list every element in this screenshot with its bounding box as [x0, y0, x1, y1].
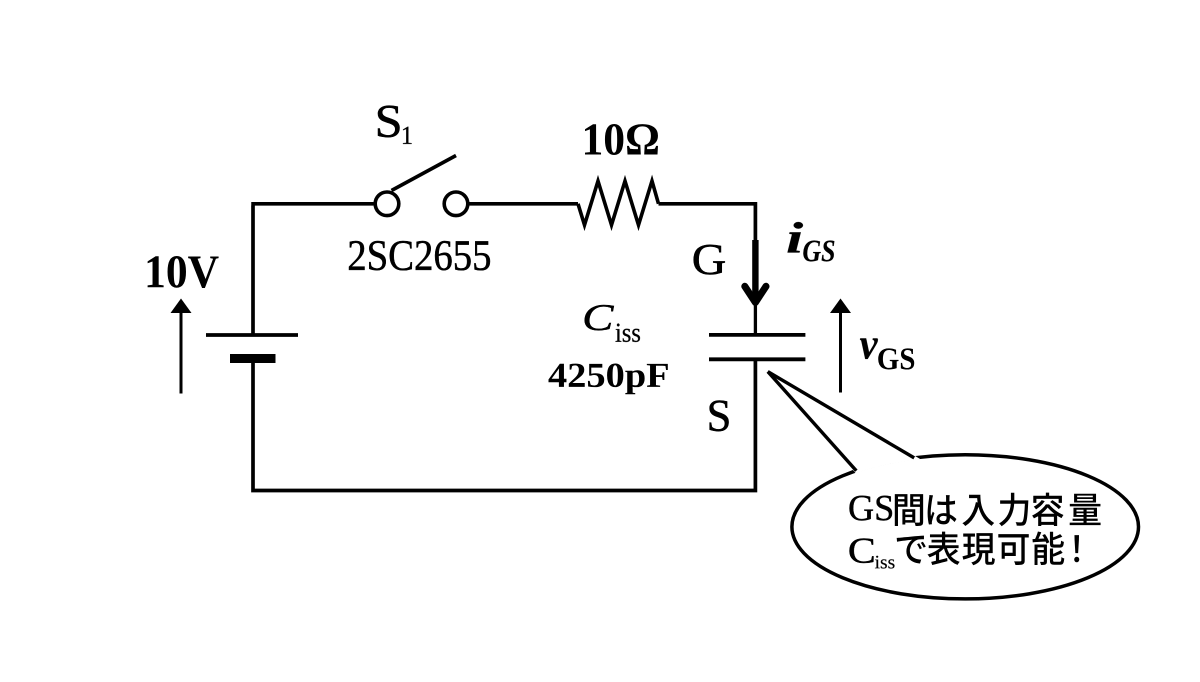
label C_iss: italic C: [585, 305, 614, 330]
battery B1 positive (long) plate: [206, 333, 298, 337]
switch S1 left contact circle: [375, 192, 399, 216]
wire: battery bottom down, bottom rail, up to capacitor bottom plate: [253, 357, 755, 491]
capacitor C_iss bottom plate (S side): [709, 357, 805, 361]
wire: left branch, battery top plate up and across to switch left contact: [251, 204, 373, 335]
label C_iss: subscript iss: [616, 324, 640, 342]
bubble text glyph 量 (line 1): [1070, 494, 1101, 525]
bubble text glyph 能 (line 2): [1033, 532, 1065, 565]
i_GS current arrow shaft (thick): [752, 240, 758, 301]
switch S1 blade (open): [392, 156, 457, 191]
bubble text glyph 可 (line 2): [998, 534, 1028, 565]
resistor R1 zigzag body: [578, 181, 659, 225]
speech bubble tail: left edge line: [768, 372, 857, 471]
wire: i_GS arrow tip down to capacitor top plate: [754, 303, 757, 334]
voltage source arrow (10V) head: [171, 299, 192, 314]
bubble text glyph は (line 1): [928, 495, 957, 525]
voltage source arrow (10V) shaft: [180, 310, 183, 394]
v_GS voltage arrow shaft: [839, 310, 842, 393]
bubble text glyph で (line 2): [897, 536, 926, 564]
speech bubble tail: white interior erasing ellipse arc between junctions: [768, 372, 914, 471]
i_GS current arrowhead (chevron): [745, 286, 766, 302]
bubble text glyph 入 (line 1): [962, 495, 994, 526]
bubble text glyph 現 (line 2): [962, 533, 994, 565]
bubble text: GS: [850, 496, 893, 521]
label i_GS: subscript GS: [803, 240, 834, 261]
label S1: subscript "1": [403, 127, 412, 144]
label v_GS: italic v: [860, 338, 878, 359]
bubble text glyph 間 (line 1): [895, 494, 923, 526]
label v_GS: subscript GS: [878, 348, 914, 369]
label G (gate): [694, 245, 725, 275]
wire: resistor right end to top-right corner, down to i_GS arrow: [659, 204, 756, 242]
bubble text glyph 表 (line 2): [927, 532, 959, 565]
label S1: "S": [378, 106, 399, 137]
switch S1 right contact circle: [444, 192, 468, 216]
bubble text: subscript iss: [875, 556, 894, 569]
label 10 ohm: [585, 124, 658, 155]
label 4250pF: [548, 363, 667, 394]
speech bubble tail: right edge line: [768, 372, 914, 458]
capacitor C_iss top plate (G side): [709, 333, 805, 337]
bubble text glyph ! (line 2): [1074, 535, 1079, 562]
bubble text glyph 力 (line 1): [999, 493, 1028, 527]
label 10V: [148, 256, 219, 288]
label 2SC2655: [349, 241, 490, 270]
v_GS voltage arrowhead: [830, 299, 851, 314]
speech bubble balloon: ellipse body: [792, 455, 1139, 599]
bubble text: C: [850, 538, 874, 563]
wire: switch right contact to resistor left end: [468, 202, 578, 206]
label S (source): [710, 400, 729, 431]
bubble text glyph 容 (line 1): [1032, 493, 1063, 526]
label i_GS: italic i: [787, 222, 802, 252]
battery B1 negative (short thick) plate: [230, 354, 276, 363]
